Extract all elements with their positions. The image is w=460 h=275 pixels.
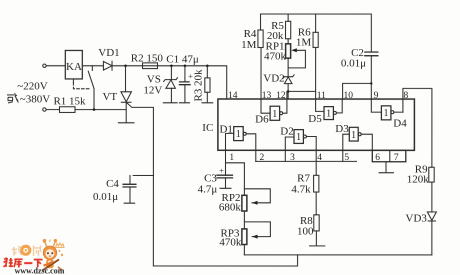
svg-text:VT: VT [102,91,117,103]
svg-text:+: + [188,71,193,81]
svg-text:12V: 12V [143,85,162,97]
svg-text:IC: IC [202,122,213,134]
svg-text:3: 3 [290,153,295,163]
svg-text:11: 11 [317,91,326,101]
svg-text:14: 14 [228,91,238,101]
svg-text:www.dzsc.com: www.dzsc.com [15,267,65,275]
svg-text:1M: 1M [241,39,257,51]
svg-text:VD1: VD1 [98,47,119,59]
svg-text:~220V: ~220V [17,80,47,92]
svg-text:100: 100 [297,226,314,238]
svg-text:+: + [219,165,224,175]
svg-text:D3: D3 [335,123,349,135]
svg-text:D1: D1 [219,124,232,136]
svg-text:D4: D4 [393,117,407,129]
svg-text:C1 47μ: C1 47μ [166,53,199,65]
svg-text:470k: 470k [264,50,287,62]
svg-text:D2: D2 [280,126,293,138]
svg-text:10: 10 [344,91,354,101]
svg-text:680k: 680k [219,201,242,213]
svg-text:1: 1 [326,109,331,120]
svg-text:R1 15k: R1 15k [53,95,86,107]
svg-text:R2 150: R2 150 [131,52,164,64]
svg-text:1: 1 [296,132,301,143]
svg-text:VD3: VD3 [405,213,427,225]
svg-text:1: 1 [272,109,277,120]
svg-text:0.01μ: 0.01μ [341,57,366,69]
svg-text:8: 8 [404,91,409,101]
svg-text:4: 4 [317,153,322,163]
svg-text:4.7μ: 4.7μ [198,184,218,196]
svg-text:D6: D6 [255,114,269,126]
svg-text:KA: KA [66,61,82,73]
svg-text:1: 1 [236,129,241,140]
svg-text:C3: C3 [204,172,217,184]
svg-text:1: 1 [351,130,356,141]
svg-text:12: 12 [276,91,286,101]
svg-text:2: 2 [260,153,265,163]
svg-text:470k: 470k [219,236,242,248]
svg-text:C4: C4 [106,178,119,190]
svg-text:13: 13 [262,91,272,101]
svg-text:R4: R4 [244,28,257,40]
svg-text:1M: 1M [296,36,312,48]
svg-text:D5: D5 [308,113,322,125]
svg-text:VD2: VD2 [263,73,284,85]
svg-text:0.01μ: 0.01μ [93,191,118,203]
svg-text:6: 6 [375,153,380,163]
svg-text:R7: R7 [297,172,310,184]
svg-text:7: 7 [394,153,399,163]
svg-text:1: 1 [229,153,234,163]
svg-text:9: 9 [374,91,379,101]
svg-text:5: 5 [344,153,349,163]
svg-text:~380V: ~380V [20,94,50,106]
svg-text:R3 20k: R3 20k [193,69,205,102]
svg-text:1: 1 [384,108,389,119]
svg-text:120k: 120k [407,174,430,186]
svg-text:4.7k: 4.7k [291,184,311,196]
